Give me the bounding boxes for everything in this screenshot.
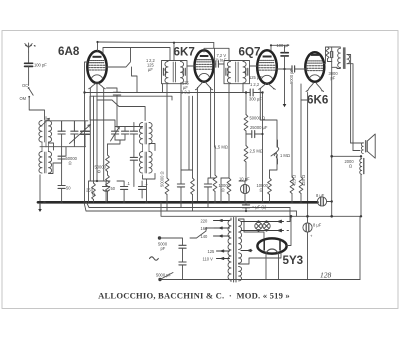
tube 6K6 [305, 52, 324, 82]
svg-text:425 Ω: 425 Ω [292, 175, 297, 186]
antenna coil L2 lower [39, 142, 52, 173]
svg-text:128: 128 [320, 271, 332, 280]
wire 6A8 grid cap [97, 42, 99, 51]
wire heater drop right [296, 211, 298, 216]
resistor 1.5Mohm [189, 96, 228, 202]
svg-text:8 µF: 8 µF [313, 223, 322, 228]
capacitor screen [204, 178, 215, 202]
svg-text:Ω: Ω [260, 187, 263, 192]
capacitor 0.1 osc [117, 181, 131, 202]
switch OC/OM [20, 83, 45, 120]
svg-text:2,5 MΩ: 2,5 MΩ [250, 149, 263, 154]
capacitor padder [107, 88, 121, 127]
tuning gang C1b [70, 121, 91, 144]
svg-text:Ω: Ω [349, 163, 352, 168]
capacitor bus coupling [242, 202, 267, 211]
svg-text:Ω: Ω [98, 169, 101, 174]
oscillator coil L4 lower [139, 144, 152, 173]
svg-text:ALLOCCHIO, BACCHINI & C. · MOD: ALLOCCHIO, BACCHINI & C. · MOD. « 519 » [98, 291, 290, 301]
power transformer secondary 5V [239, 253, 242, 263]
wire ant coil top [45, 121, 89, 131]
wire osc coil bottoms [143, 144, 156, 203]
wire 6A8 cathode down [96, 83, 98, 181]
capacitor 100pF antenna [25, 63, 33, 85]
wire 5Y3 output [287, 216, 291, 245]
wire second top line [103, 48, 170, 61]
wire HV bottom to 5Y3 [239, 253, 281, 265]
heater bus 1 [87, 202, 291, 207]
svg-text:100 µF: 100 µF [277, 43, 290, 48]
heater bus 2 [84, 202, 297, 211]
antenna coil L1 upper [39, 117, 52, 148]
wire T3 secondary to 6Q7 grid [250, 65, 258, 67]
svg-text:50: 50 [111, 186, 116, 191]
ground bus [38, 201, 317, 204]
capacitor 50uF 6A8 cathode [103, 181, 116, 202]
speaker voice coil [361, 143, 363, 154]
svg-text:110 V: 110 V [203, 256, 214, 261]
power transformer primary [228, 218, 231, 282]
svg-text:8 µF: 8 µF [316, 193, 325, 198]
rectifier 5Y3 [257, 238, 286, 253]
svg-text:425 Ω: 425 Ω [301, 175, 306, 186]
wire bottom right rect [359, 216, 361, 279]
svg-text:5000 pF: 5000 pF [156, 273, 172, 278]
wire AVC line [85, 92, 251, 94]
tap 125 [208, 249, 230, 254]
capacitor mains 2 [179, 262, 186, 280]
heater feed line 1 [241, 220, 284, 223]
wire heater risers [287, 208, 290, 231]
resistor IF1 [165, 178, 169, 202]
svg-text:½ to F: ½ to F [216, 58, 227, 63]
tap 110 [203, 256, 230, 261]
svg-text:+: + [310, 234, 313, 239]
svg-text:50000 Ω: 50000 Ω [160, 171, 165, 187]
resistor 6K6 b [299, 84, 306, 202]
svg-text:µF: µF [148, 67, 153, 72]
IF transformer T3 (between 6K7 and 6Q7) [224, 61, 250, 84]
capacitor 10000a [219, 178, 231, 202]
wire detector node [253, 93, 262, 203]
wire ant coil bottoms [40, 134, 86, 202]
svg-text:Ω: Ω [92, 192, 95, 197]
capacitor coupling 6K6 [277, 66, 308, 84]
power transformer secondary 6V [239, 267, 242, 281]
trimmer C ant [58, 121, 65, 186]
mains terminal top [158, 236, 183, 251]
wire RC bottom join [328, 61, 332, 63]
wire osc grid kink [97, 100, 145, 121]
IF transformer T2 (between 6A8 and 6K7) [162, 61, 188, 84]
svg-text:6K7: 6K7 [174, 46, 195, 59]
svg-text:1 MΩ: 1 MΩ [280, 153, 290, 158]
oscillator coil L3 upper [139, 123, 152, 145]
svg-text:1 2,2: 1 2,2 [181, 90, 191, 95]
wire 6Q7 grid cap [271, 45, 289, 50]
capacitor ant padder [49, 156, 66, 173]
trimmer C osc [111, 127, 120, 142]
filament 6K7 [195, 82, 212, 90]
wire antenna lead [28, 52, 30, 62]
svg-text:1,5 MΩ: 1,5 MΩ [215, 145, 228, 150]
svg-text:.1: .1 [127, 181, 131, 186]
resistor 2.5 Mohm [244, 146, 263, 182]
svg-text:1 2,2: 1 2,2 [250, 82, 260, 87]
capacitor osc 1 [130, 123, 137, 152]
mains terminal bottom [156, 273, 173, 282]
svg-text:6Q7: 6Q7 [239, 46, 261, 59]
speaker cone [365, 134, 375, 158]
tap 140 [201, 234, 230, 239]
pilot lamp 2 [263, 221, 270, 231]
capacitor 3000pF [329, 47, 339, 80]
output transformer T4 [332, 47, 350, 69]
wire 6K6 grid leak [263, 120, 278, 170]
electrolytic 8uF output [303, 216, 322, 279]
power transformer core [234, 218, 236, 283]
wire osc feedback drop [132, 67, 138, 92]
wire 6K6 plate up [323, 47, 337, 63]
svg-text:5Y3: 5Y3 [283, 254, 304, 267]
svg-text:pF: pF [161, 246, 166, 251]
capacitor 6K7 plate [216, 61, 219, 67]
svg-text:Ω: Ω [222, 187, 225, 192]
wire AVC second [90, 96, 172, 126]
power transformer secondary HV [239, 219, 244, 250]
electrolytic 8uF bus [316, 193, 332, 206]
wire speaker leads [347, 55, 353, 151]
wire 6K6 heater jog [301, 93, 308, 217]
svg-text:125 µ F: 125 µ F [249, 75, 263, 80]
antenna [25, 43, 36, 52]
svg-text:6K6: 6K6 [307, 94, 329, 107]
wire 6A8 left grid [85, 62, 88, 202]
resistor plate RC [326, 47, 329, 62]
wire T3 drops [229, 84, 243, 178]
wire voice coil top [351, 143, 364, 151]
electrolytic 10uF 6K6 cathode [239, 177, 250, 203]
wire HV top to 5Y3 plate [244, 232, 264, 238]
wire AVC arrow [284, 69, 286, 104]
tube 6Q7 [257, 50, 277, 83]
potentiometer 1 Mohm [271, 140, 290, 164]
resistor grid 6K6 [268, 170, 272, 202]
svg-text:OM: OM [20, 96, 27, 101]
tap 220 [201, 218, 230, 223]
wire 6K7 plate to T3 [214, 63, 225, 65]
top bus wire [98, 41, 214, 44]
wire 6A8 plate right [107, 48, 131, 68]
svg-text:OC: OC [22, 83, 28, 88]
capacitor IF1 [177, 184, 184, 203]
wire drop to T3 [204, 43, 229, 147]
wire 5Y3 filament down [266, 253, 279, 280]
bottom line [160, 279, 360, 281]
capacitor osc 2 [130, 151, 137, 187]
wire B feed vertical [331, 62, 333, 217]
svg-text:50: 50 [66, 186, 71, 191]
capacitor cathode 50 [58, 186, 71, 203]
resistor screen [181, 96, 194, 202]
capacitor 10000b [257, 183, 269, 192]
filament 6A8 [89, 83, 106, 89]
capacitor 25000 detector [246, 125, 268, 137]
wire 6A8 heater leads [90, 89, 103, 181]
wire T2 secondary to 6K7 grid [187, 65, 195, 67]
B plus bus [161, 211, 360, 216]
svg-text:125: 125 [208, 249, 216, 254]
pilot lamp 1 [255, 221, 262, 231]
svg-text:10 µF: 10 µF [239, 177, 250, 182]
mains AC symbol [150, 257, 159, 260]
resistor 6K6 a [290, 84, 296, 202]
resistor 50000 ohm detector [244, 93, 265, 146]
wire 6Q7 heater lead [260, 90, 262, 121]
wire heater taps [161, 202, 208, 211]
filament 6Q7 [259, 83, 276, 89]
wire field junction [332, 155, 361, 157]
svg-text:160: 160 [201, 226, 209, 231]
field coil 2000 ohm [345, 156, 364, 216]
capacitor 300uF detector [249, 89, 262, 102]
tap 160 [201, 226, 230, 231]
ground symbol [38, 204, 42, 213]
wire drop to T2 [173, 43, 175, 61]
tuning gang C2 [108, 127, 143, 145]
capacitor 100uF top [277, 43, 290, 69]
heater feed line 2 [241, 229, 284, 232]
tube 6K7 [195, 50, 214, 81]
svg-text:6A8: 6A8 [58, 45, 80, 58]
arrow 5V filament [241, 249, 252, 251]
capacitor 0.1 osc2 [139, 181, 149, 198]
svg-text:100 pF: 100 pF [34, 63, 47, 68]
resistor T3 [221, 178, 231, 202]
resistor 250 ohm 6A8 [86, 181, 110, 202]
svg-text:≈ µF (1): ≈ µF (1) [252, 205, 267, 210]
svg-text:220: 220 [201, 218, 209, 223]
svg-text:5000 pF: 5000 pF [289, 68, 294, 84]
wire T2 drops [163, 84, 182, 184]
capacitor mains 1 [179, 245, 186, 262]
tuning gang C1 [71, 121, 78, 143]
svg-text:.1: .1 [145, 181, 149, 186]
svg-text:Ω: Ω [69, 160, 72, 165]
wire 6K7 heater leads [197, 88, 215, 203]
filament 6K6 [306, 83, 324, 92]
tube 6A8 [87, 51, 106, 83]
switch mains [190, 228, 214, 238]
svg-text:25000 µF: 25000 µF [250, 125, 268, 130]
resistor 50000 osc [106, 144, 110, 202]
